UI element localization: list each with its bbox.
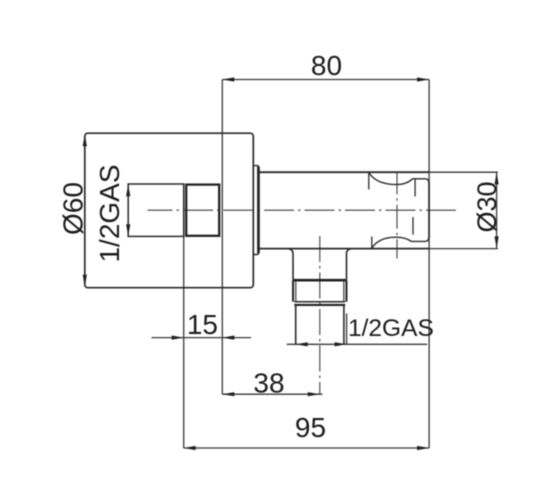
svg-text:80: 80 [311, 50, 342, 81]
svg-text:1/2GAS: 1/2GAS [348, 315, 434, 342]
svg-text:1/2GAS: 1/2GAS [94, 164, 125, 262]
svg-text:Ø30: Ø30 [472, 181, 502, 232]
svg-text:38: 38 [253, 368, 284, 399]
svg-text:95: 95 [295, 412, 326, 443]
svg-text:Ø60: Ø60 [58, 182, 89, 235]
svg-text:15: 15 [187, 309, 218, 340]
